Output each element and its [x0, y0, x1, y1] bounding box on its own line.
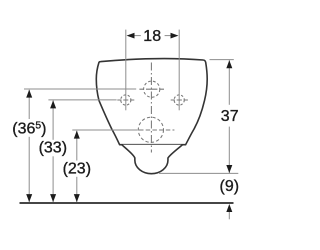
svg-text:18: 18	[143, 28, 161, 45]
svg-text:(33): (33)	[39, 140, 67, 157]
svg-text:37: 37	[221, 108, 239, 125]
svg-text:(23): (23)	[63, 160, 91, 177]
svg-text:(9): (9)	[220, 178, 240, 195]
svg-text:(365): (365)	[12, 120, 46, 137]
